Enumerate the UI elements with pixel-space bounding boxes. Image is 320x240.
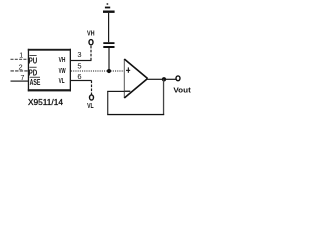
wire pin2 to PD: [11, 70, 29, 72]
wire feedback output drop: [163, 79, 164, 114]
terminal Vout: [176, 76, 180, 81]
svg-text:PU: PU: [29, 57, 38, 66]
wire pin7 to ASE: [11, 81, 29, 82]
svg-text:2: 2: [19, 63, 23, 72]
capacitor C1 top plate: [103, 42, 114, 44]
wire feedback to minus input: [107, 91, 125, 92]
svg-text:ASE: ASE: [30, 78, 41, 87]
svg-text:6: 6: [77, 72, 81, 81]
wire VH pin3 horizontal: [71, 60, 92, 61]
wire VH pin3 vertical riser: [90, 45, 92, 61]
power symbol VCC tick: [107, 3, 109, 4]
wire VW pin5 to op-amp (dotted): [71, 70, 124, 72]
pin label PD with overline: [29, 67, 38, 78]
wire VL pin6 vertical drop: [91, 81, 93, 95]
svg-text:VL: VL: [87, 103, 94, 110]
svg-text:VL: VL: [59, 78, 65, 85]
svg-text:X9511/14: X9511/14: [28, 98, 64, 107]
svg-text:PD: PD: [29, 68, 38, 77]
svg-text:Vout: Vout: [173, 88, 191, 95]
IC U1 box X9511/14: [28, 49, 71, 92]
terminal VL: [90, 95, 94, 100]
wire feedback bottom rail: [107, 114, 164, 115]
pin label ASE with overline: [30, 77, 41, 87]
wire feedback left riser: [107, 91, 108, 114]
wire VL pin6 horizontal: [71, 80, 92, 81]
op-amp U2 triangle: [124, 59, 147, 98]
power symbol VCC short bar: [105, 7, 110, 9]
op-amp plus input mark: [126, 67, 130, 72]
pin label PU with overline: [29, 55, 38, 66]
wire pin1 to PU: [11, 58, 29, 60]
wire VCC to capacitor: [108, 13, 109, 42]
svg-text:VH: VH: [59, 57, 66, 64]
junction node output: [162, 77, 166, 81]
svg-text:1: 1: [19, 53, 23, 60]
svg-text:VH: VH: [87, 31, 95, 38]
svg-text:5: 5: [77, 62, 81, 71]
capacitor C1 bottom plate: [103, 46, 114, 48]
junction node VW/C1: [107, 69, 111, 73]
wire op-amp output: [148, 79, 177, 80]
svg-text:VW: VW: [59, 68, 66, 75]
terminal VH: [89, 40, 93, 45]
op-amp minus input stub: [125, 91, 131, 92]
wire capacitor to VW node: [108, 48, 109, 70]
power symbol VCC long bar: [103, 11, 115, 13]
svg-text:3: 3: [77, 50, 81, 59]
